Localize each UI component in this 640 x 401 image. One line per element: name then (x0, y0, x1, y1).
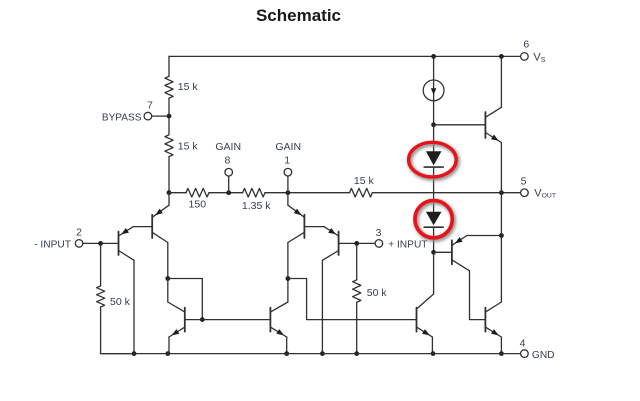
resistor R1 value 15 k (178, 81, 199, 93)
transistor Q9 base bar (484, 308, 486, 332)
wire Q7 collector to Q9 base (470, 271, 486, 320)
diode D1 cathode bar (424, 166, 443, 168)
resistor R4 1.35k (243, 188, 265, 197)
pin 3 terminal (375, 240, 383, 248)
wire VS rail (169, 55, 521, 57)
title (256, 6, 341, 25)
wire top-rail to R1 (168, 56, 170, 76)
transistor Q2 emitter arrow (155, 209, 163, 216)
node row-left junction (167, 190, 172, 195)
transistor Q9 emitter arrow (491, 329, 499, 335)
transistor Q2 emitter (152, 205, 169, 217)
transistor Q1 collector (119, 251, 135, 261)
wire pin2 to Q1 base (83, 242, 119, 244)
wire row left segment (169, 192, 186, 194)
pin 3 label (376, 227, 382, 239)
wire R6 to ground rail (101, 307, 134, 354)
wire Q8 collector to VS (500, 56, 502, 107)
resistor R7 50k (353, 280, 361, 303)
node input2 junction (98, 241, 103, 246)
resistor R6 value 50 k (110, 296, 131, 308)
wire GND rail (101, 353, 521, 355)
diode D2 cathode bar (424, 226, 443, 228)
wire R4 to 15k feedback (265, 192, 350, 194)
node VOUT junction (499, 190, 504, 195)
svg-text:5: 5 (521, 176, 527, 188)
wire R5 to output rail (372, 192, 520, 194)
wire input3 to R7 (356, 243, 358, 279)
wire node D to Q8 base (434, 124, 486, 126)
svg-text:15 k: 15 k (178, 81, 199, 93)
pin 2 label (76, 227, 82, 239)
transistor Q5 collector (168, 302, 185, 312)
node A junction (165, 276, 170, 281)
wire Q3 base to pin 3 (339, 242, 376, 244)
node Q5-rail junction (165, 351, 170, 356)
pin -INPUT label (34, 239, 71, 250)
resistor R5 value 15 k (354, 175, 375, 187)
node R7-rail junction (354, 351, 359, 356)
resistor R2 value 15 k (178, 140, 199, 152)
node Q6-rail junction (284, 351, 289, 356)
wire Q2 emitter to row (168, 193, 170, 206)
transistor Q10 emitter arrow (422, 329, 430, 335)
net GND label (532, 350, 555, 361)
resistor R5 15k feedback (350, 188, 373, 197)
wire R2 to main row (168, 157, 170, 193)
pin 5 terminal (521, 189, 529, 197)
svg-text:4: 4 (520, 337, 526, 349)
diode D1 (426, 151, 442, 165)
node E junction (431, 250, 436, 255)
current source I1 arrow (431, 88, 437, 94)
wire Q10 collector to node E (433, 252, 435, 294)
resistor R2 15k (165, 135, 173, 157)
wire Q9 emitter to rail (500, 337, 502, 354)
transistor Q4 collector (288, 232, 305, 242)
svg-text:3: 3 (376, 227, 382, 239)
transistor Q8 emitter arrow (491, 135, 499, 141)
transistor Q7 emitter arrow (455, 237, 463, 243)
wire Q5 emitter to rail (168, 337, 170, 354)
pin 1 label (284, 155, 290, 167)
net VS label (533, 52, 545, 64)
transistor Q3 collector (322, 251, 338, 261)
wire Q4 collector to node C (287, 243, 289, 279)
current source I1 circle (423, 80, 444, 101)
pin 7 terminal (144, 112, 152, 120)
node Q3-rail junction (320, 351, 325, 356)
wire R1 to R2 (through bypass node) (168, 98, 170, 135)
wire D1 to D2 (crosses output row) (433, 167, 435, 212)
pin BYPASS label (102, 112, 142, 123)
net VOUT label (534, 187, 556, 199)
wire R3 to gain8 node (209, 192, 243, 194)
node Q9-rail junction (499, 351, 504, 356)
resistor R3 value 150 (189, 199, 207, 211)
pin 7 label (147, 100, 153, 112)
pin 6 terminal (521, 53, 529, 61)
wire Q6 collector to node C (287, 279, 289, 303)
wire Q7 emitter to output rail (467, 235, 501, 237)
svg-text:+ INPUT: + INPUT (388, 239, 427, 250)
transistor Q7 emitter (452, 236, 467, 246)
wire Q9 collector to output rail (500, 236, 502, 303)
wire gain8 stub (228, 176, 230, 193)
transistor Q1 emitter arrow (121, 228, 129, 234)
wire Q3 emitter to Q4 base (304, 226, 324, 228)
svg-text:6: 6 (523, 38, 529, 50)
transistor Q10 collector (417, 294, 434, 309)
transistor Q4 emitter arrow (294, 209, 302, 216)
transistor Q4 emitter (288, 205, 305, 217)
node VS-current-source junction (431, 54, 436, 59)
transistor Q6 base bar (269, 308, 271, 332)
wire node D to D1 (433, 125, 435, 152)
transistor Q9 emitter (485, 327, 501, 337)
diode D2 (426, 212, 442, 225)
pin 1 terminal (284, 168, 292, 176)
svg-text:VOUT: VOUT (534, 187, 556, 199)
svg-text:GAIN: GAIN (215, 141, 241, 153)
node Q7-rail junction (499, 233, 504, 238)
pin 4 label (520, 337, 526, 349)
svg-text:15 k: 15 k (354, 175, 375, 187)
svg-text:2: 2 (76, 227, 82, 239)
resistor R3 150 (186, 188, 209, 197)
transistor Q9 collector (485, 302, 501, 312)
wire gain1 stub (287, 176, 289, 193)
transistor Q5 emitter (169, 327, 185, 337)
wire node A to node B (168, 279, 203, 320)
resistor R6 50k (97, 286, 105, 307)
transistor Q8 collector (485, 107, 501, 117)
annotation red ellipse around D1 (409, 142, 458, 178)
wire Q2 collector to node A (167, 243, 169, 279)
svg-text:Schematic: Schematic (256, 6, 341, 25)
pin 4 terminal (521, 350, 529, 358)
wire bypass stub (152, 115, 169, 117)
pin 8 label (224, 155, 230, 167)
svg-text:50 k: 50 k (110, 296, 131, 308)
wire node C to gain base (288, 279, 417, 320)
node gain-1 junction (286, 190, 291, 195)
current source I1 shaft (433, 80, 435, 125)
pin 2 terminal (75, 240, 83, 248)
wire Q1 collector to rail (133, 260, 135, 353)
wire Q1 emitter to Q2 base (133, 226, 152, 228)
wire output rail VOUT segment (500, 193, 502, 236)
node gain-8 junction (226, 190, 231, 195)
svg-text:- INPUT: - INPUT (34, 239, 71, 250)
pin 6 label (523, 38, 529, 50)
wire R7 to rail (356, 302, 358, 353)
svg-text:VS: VS (533, 52, 545, 64)
wire Q8 emitter to VOUT rail (500, 143, 502, 193)
transistor Q6 emitter arrow (276, 329, 284, 335)
transistor Q7 base bar (451, 240, 453, 264)
node D junction (431, 122, 436, 127)
svg-text:1: 1 (284, 155, 290, 167)
transistor Q6 collector (270, 302, 288, 312)
resistor R1 15k (165, 76, 173, 98)
resistor R4 value 1.35 k (242, 200, 271, 212)
transistor Q5 base bar (184, 308, 186, 332)
svg-text:8: 8 (224, 155, 230, 167)
pin GAIN label (1) (275, 141, 301, 153)
node bypass junction (167, 114, 172, 119)
transistor Q1 base bar (118, 232, 120, 256)
node C junction (286, 276, 291, 281)
svg-text:GND: GND (532, 350, 555, 361)
transistor Q1 emitter (119, 227, 134, 236)
resistor R7 value 50 k (367, 287, 388, 299)
svg-text:150: 150 (189, 199, 207, 211)
node VS-Q8 junction (499, 54, 504, 59)
wire node E to Q7 base (434, 251, 452, 253)
transistor Q7 collector (452, 260, 470, 271)
transistor Q4 base bar (303, 215, 305, 238)
wire VS to current source (433, 56, 435, 80)
svg-text:15 k: 15 k (178, 140, 199, 152)
transistor Q2 base bar (151, 215, 153, 238)
transistor Q2 collector (152, 232, 168, 242)
pin GAIN label (8) (215, 141, 241, 153)
wire Q3 collector to rail (321, 260, 323, 353)
wire Q10 emitter to rail (431, 337, 433, 354)
svg-text:1.35 k: 1.35 k (242, 200, 271, 212)
transistor Q3 emitter (324, 227, 339, 236)
wire D2 to node E (433, 227, 435, 252)
transistor Q3 emitter arrow (328, 228, 336, 234)
pin 8 terminal (225, 168, 233, 176)
svg-text:50 k: 50 k (367, 287, 388, 299)
transistor Q8 base bar (484, 112, 486, 138)
transistor Q5 emitter arrow (172, 329, 180, 335)
svg-text:7: 7 (147, 100, 153, 112)
node B junction (200, 317, 205, 322)
wire input2 to R6 (100, 243, 102, 286)
annotation red circle around D2 (415, 200, 454, 239)
pin +INPUT label (388, 239, 427, 250)
node Q1-rail junction (132, 351, 137, 356)
node Q10-rail junction (431, 351, 436, 356)
node input3 junction (354, 241, 359, 246)
transistor Q10 base bar (416, 308, 418, 332)
wire Q5 collector to node A (167, 279, 169, 303)
transistor Q8 emitter (485, 133, 501, 143)
transistor Q3 base bar (338, 232, 340, 256)
pin 5 label (521, 176, 527, 188)
transistor Q10 emitter (417, 327, 433, 337)
transistor Q6 emitter (270, 327, 286, 337)
svg-text:GAIN: GAIN (275, 141, 301, 153)
wire Q6 emitter to rail (286, 337, 288, 354)
wire Q4 emitter to gain1 node (287, 193, 289, 206)
svg-text:BYPASS: BYPASS (102, 112, 142, 123)
wire mirror base interconnect (185, 319, 271, 321)
